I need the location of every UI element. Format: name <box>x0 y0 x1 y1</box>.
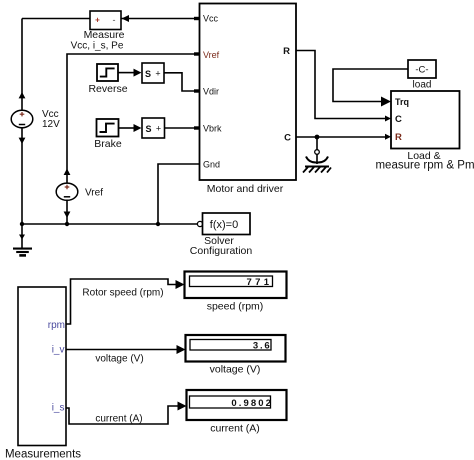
svg-text:voltage (V): voltage (V) <box>95 354 143 365</box>
constant block load (-C-) <box>408 60 436 91</box>
svg-text:Vdir: Vdir <box>203 87 219 97</box>
svg-text:Vref: Vref <box>85 188 103 199</box>
svg-text:S: S <box>145 124 151 134</box>
svg-text:+: + <box>156 124 161 134</box>
svg-text:R: R <box>283 46 290 57</box>
wire rpm to speed display <box>66 279 185 324</box>
wire i_s to current display <box>66 402 187 425</box>
svg-text:S: S <box>145 69 151 79</box>
wire converter to Motor Vbrk port <box>165 126 200 129</box>
ground bus wire <box>22 223 197 225</box>
svg-text:Vcc: Vcc <box>203 14 219 24</box>
mechanical rotational reference ground <box>303 137 331 173</box>
svg-text:+: + <box>95 16 100 25</box>
svg-text:12V: 12V <box>42 119 60 130</box>
junction dots on bus <box>20 222 24 226</box>
svg-text:Measurements: Measurements <box>5 449 81 460</box>
svg-text:current (A): current (A) <box>95 414 142 425</box>
svg-text:R: R <box>395 132 402 143</box>
svg-text:f(x)=0: f(x)=0 <box>210 219 238 231</box>
measurements block <box>5 287 81 460</box>
wire Reverse to converter with arrowhead <box>118 69 142 77</box>
svg-text:-C-: -C- <box>415 65 428 76</box>
voltage source Vcc 12V <box>11 92 60 224</box>
svg-text:rpm: rpm <box>48 320 65 331</box>
wire i_v to voltage display <box>66 345 186 365</box>
Simulink-PS converter U1 (S+) <box>142 63 164 83</box>
svg-text:i_s: i_s <box>52 403 65 414</box>
step source Brake <box>94 119 122 150</box>
svg-text:Configuration: Configuration <box>190 245 253 257</box>
svg-text:Trq: Trq <box>395 97 409 107</box>
svg-text:+: + <box>155 69 160 79</box>
junction node on C wire <box>315 135 320 140</box>
wire Motor C port to Load R port <box>296 136 386 138</box>
svg-text:Rotor speed (rpm): Rotor speed (rpm) <box>82 288 163 299</box>
wire Motor R port to Load C port <box>296 51 386 119</box>
display speed (rpm) = 771 <box>185 272 287 313</box>
svg-text:C: C <box>284 133 291 144</box>
wire load to Trq port with arrowhead <box>333 69 408 107</box>
voltage source Vref <box>56 52 199 224</box>
svg-text:Motor and driver: Motor and driver <box>207 183 284 195</box>
svg-text:771: 771 <box>246 277 272 288</box>
wire Motor Gnd to bus <box>158 164 199 224</box>
svg-text:0.9802: 0.9802 <box>231 398 273 409</box>
svg-text:Brake: Brake <box>94 138 122 150</box>
svg-text:-: - <box>113 15 116 25</box>
wire converter to Motor Vdir port <box>164 73 199 93</box>
svg-text:current (A): current (A) <box>210 423 260 435</box>
wire Measure to Motor Vcc port with left arrowhead <box>121 15 199 22</box>
step source Reverse <box>88 64 127 95</box>
svg-text:speed (rpm): speed (rpm) <box>207 301 264 313</box>
svg-text:Vbrk: Vbrk <box>203 124 222 134</box>
measure block M1 (Measure Vcc, i_s, Pe) <box>71 11 125 52</box>
svg-text:Gnd: Gnd <box>203 160 220 170</box>
wire Brake to converter with arrowhead <box>119 124 142 132</box>
svg-text:i_v: i_v <box>52 345 65 356</box>
svg-text:Measure: Measure <box>84 29 125 41</box>
svg-text:measure rpm & Pm: measure rpm & Pm <box>375 160 474 172</box>
svg-text:Vcc, i_s, Pe: Vcc, i_s, Pe <box>71 41 124 52</box>
wire from Vcc bus corner to Measure block <box>22 19 90 111</box>
display current (A) = 0.9802 <box>187 390 287 435</box>
motor block (Motor and driver) <box>200 4 297 196</box>
svg-text:Reverse: Reverse <box>88 83 127 95</box>
svg-text:C: C <box>395 114 402 125</box>
svg-text:Vref: Vref <box>203 50 220 60</box>
display voltage (V) = 3.6 <box>186 335 286 376</box>
svg-text:3.6: 3.6 <box>253 341 272 352</box>
load and measure block (Load & measure rpm & Pm) <box>375 91 474 172</box>
solver configuration block f(x)=0 <box>190 213 253 257</box>
electrical reference ground (left) <box>13 224 32 255</box>
svg-text:load: load <box>413 80 432 91</box>
svg-text:voltage (V): voltage (V) <box>210 364 261 376</box>
Simulink-PS converter U2 (S+) <box>142 118 165 138</box>
